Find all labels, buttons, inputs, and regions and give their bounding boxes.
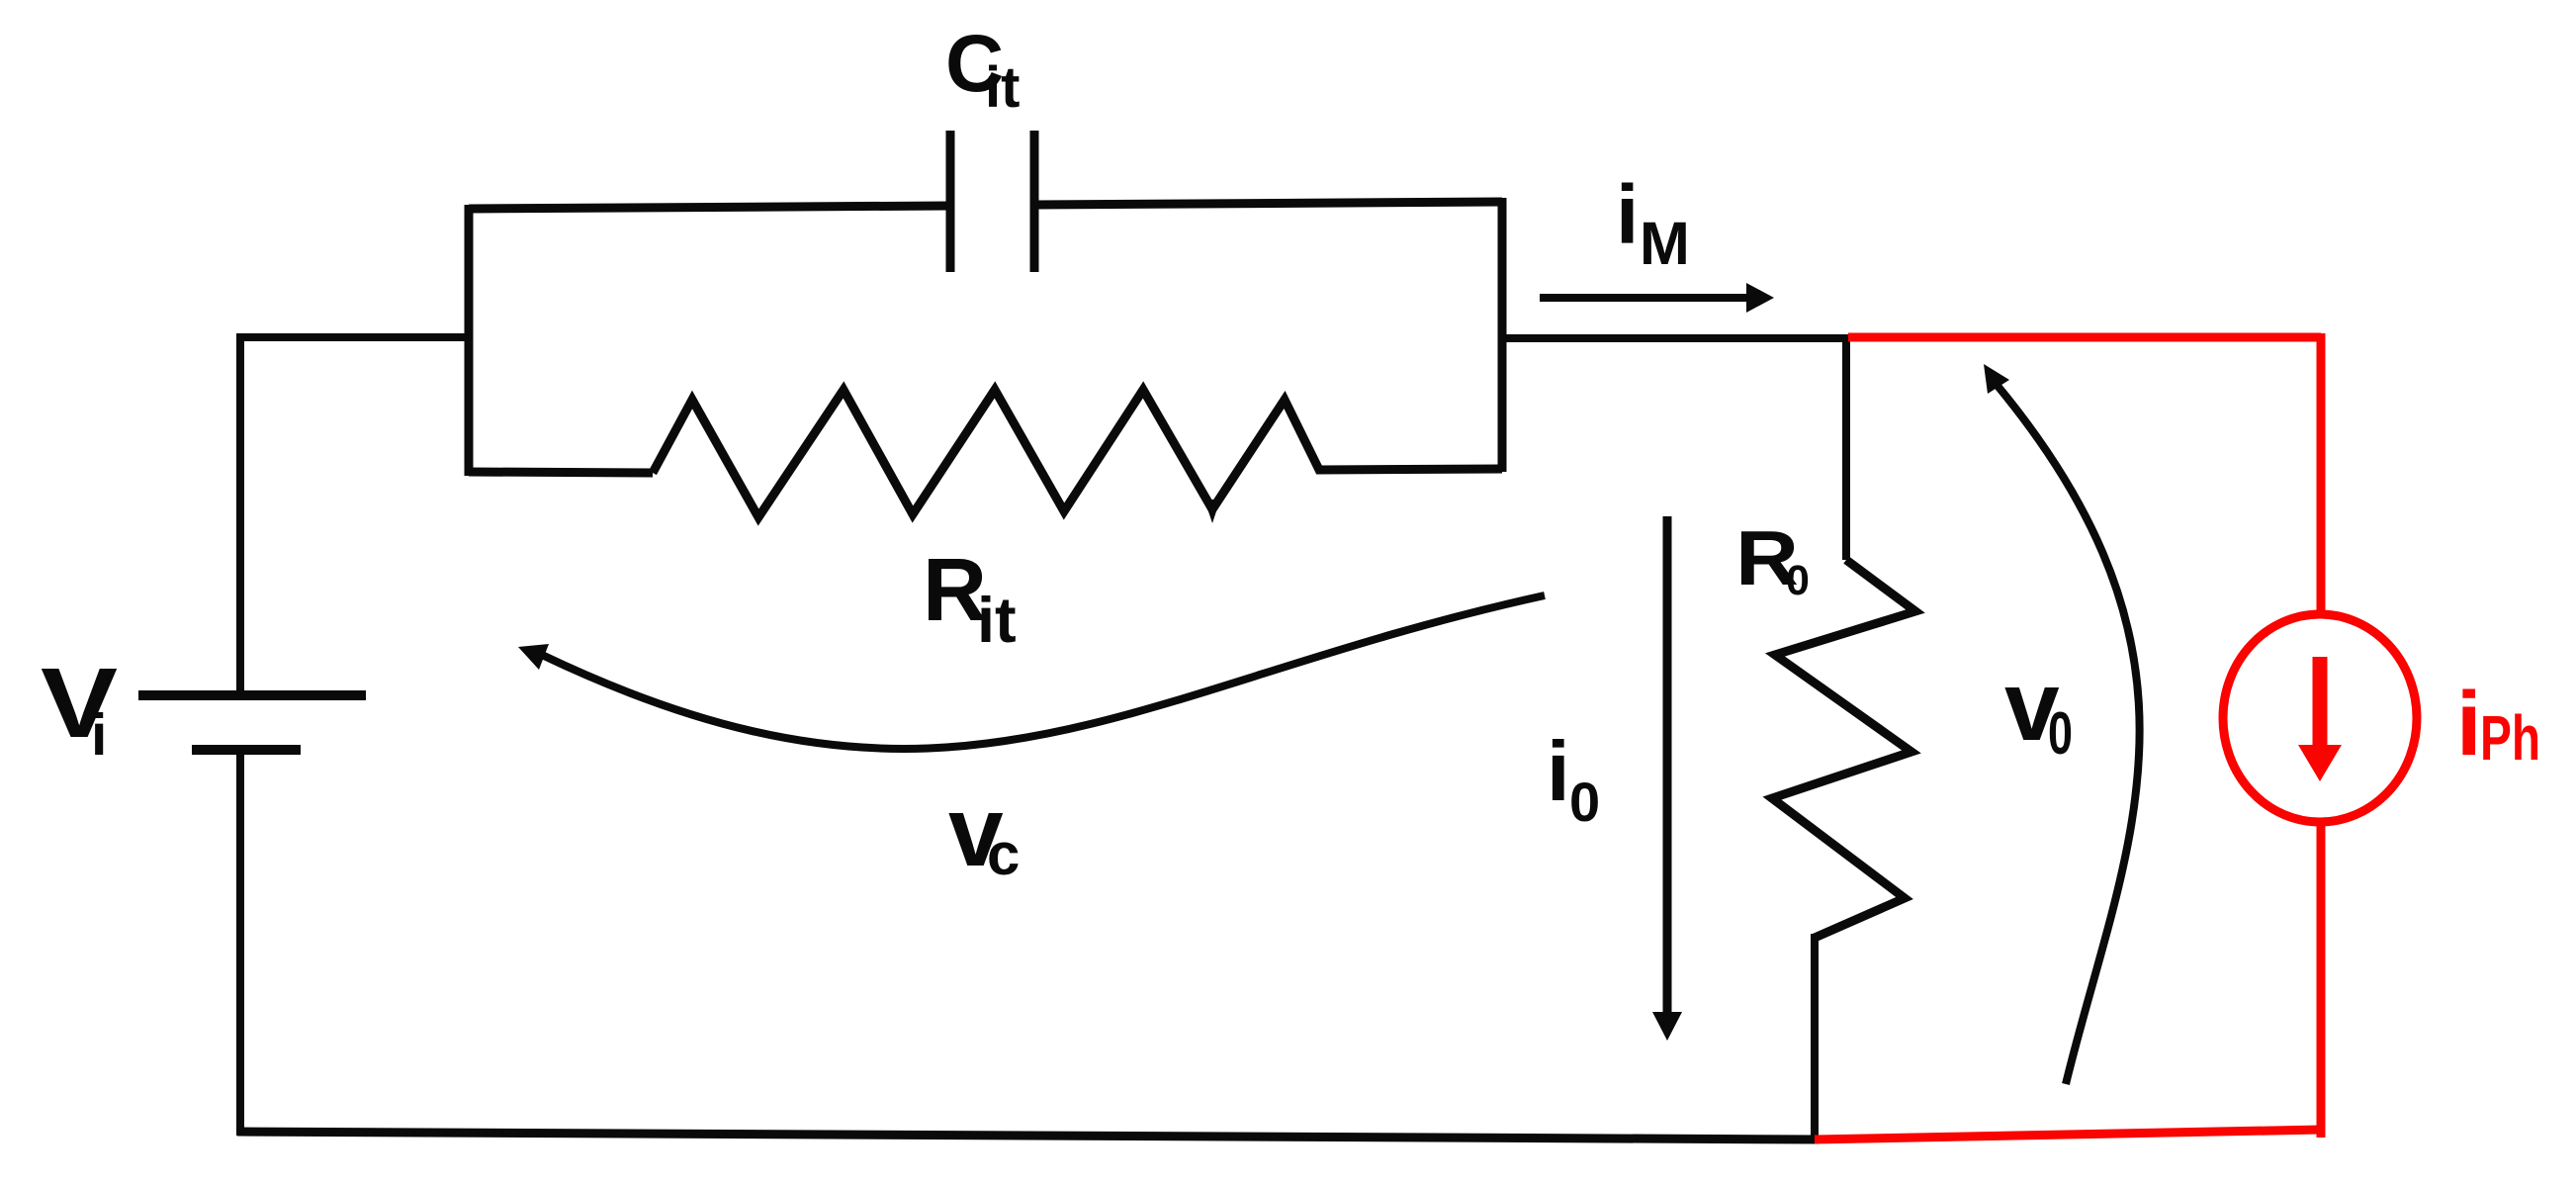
svg-text:i: i	[91, 702, 107, 768]
svg-text:i: i	[1547, 725, 1570, 819]
wire left vertical upper	[236, 333, 244, 692]
resistor R0 zigzag	[1772, 560, 1915, 938]
label v_c	[948, 776, 1020, 887]
wire left vertical lower	[236, 750, 244, 1136]
wire red top	[1848, 333, 2321, 342]
capacitor C_it	[950, 131, 1034, 272]
label R_0	[1735, 514, 1810, 604]
svg-text:c: c	[987, 821, 1020, 887]
label i_0	[1547, 725, 1600, 833]
wire left top horizontal	[237, 333, 469, 341]
wire box top right segment	[1034, 202, 1502, 205]
arrow v_0 curved	[1984, 364, 2140, 1084]
arrow i_0	[1652, 516, 1682, 1041]
svg-text:it: it	[985, 55, 1020, 120]
wire bottom black	[237, 1132, 1819, 1139]
svg-text:0: 0	[1569, 771, 1600, 833]
wire box left edge	[465, 205, 474, 476]
svg-text:i: i	[1616, 168, 1639, 261]
resistor R_it zigzag	[653, 390, 1502, 523]
wire R0 top lead	[1842, 338, 1850, 560]
wire red right upper	[2317, 333, 2326, 616]
svg-text:0: 0	[2048, 700, 2073, 767]
arrow v_c curved	[518, 595, 1545, 749]
label V_i	[41, 648, 118, 768]
svg-text:M: M	[1640, 210, 1690, 277]
svg-text:Ph: Ph	[2480, 702, 2540, 774]
svg-text:i: i	[2456, 674, 2482, 775]
voltage source V_i (battery)	[138, 695, 366, 750]
wire box bottom left segment (R_it left lead)	[469, 472, 653, 473]
wire R0 bottom lead	[1811, 934, 1819, 1139]
label i_M	[1616, 168, 1690, 277]
wire output node	[1502, 334, 1848, 342]
label i_Ph	[2456, 674, 2540, 775]
wire box top left segment	[469, 206, 950, 209]
wire box right edge	[1498, 198, 1507, 472]
svg-text:it: it	[977, 584, 1017, 656]
wire red bottom	[1815, 1130, 2321, 1139]
label R_it	[923, 541, 1017, 656]
svg-text:0: 0	[1786, 557, 1810, 604]
label C_it	[945, 19, 1020, 120]
current source arrow	[2298, 657, 2342, 781]
wire red right lower	[2317, 820, 2326, 1138]
label v_0	[2004, 651, 2073, 767]
arrow i_M	[1540, 283, 1774, 313]
current source i_Ph circle	[2223, 614, 2417, 822]
